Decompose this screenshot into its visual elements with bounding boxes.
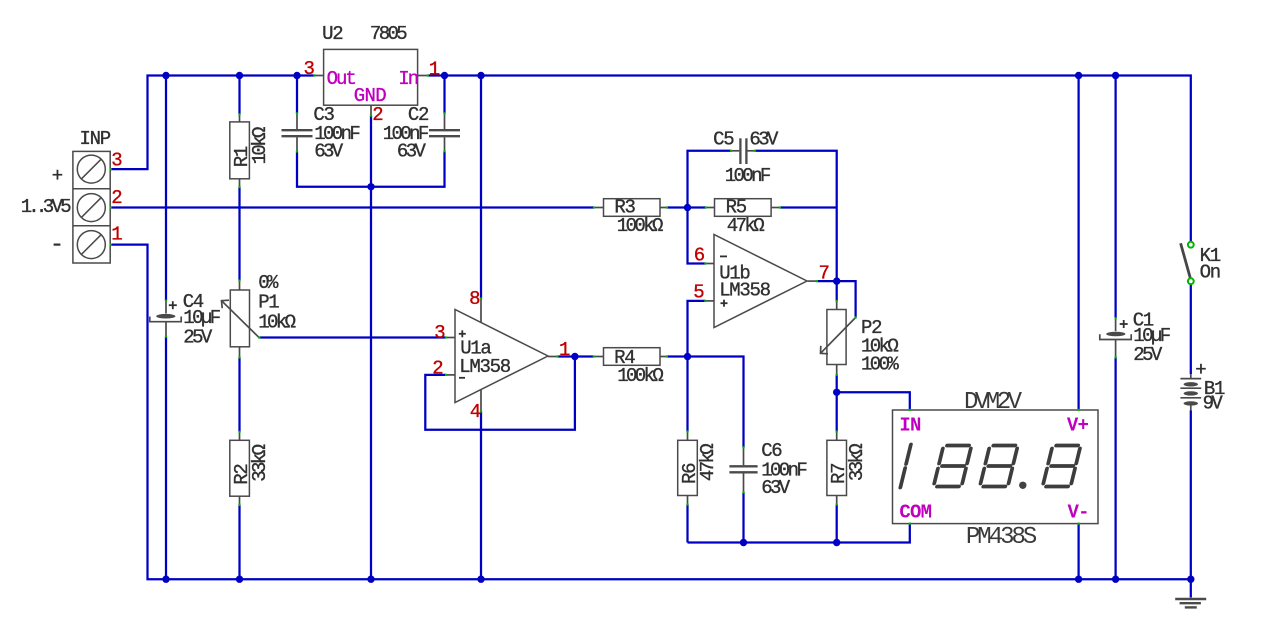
- svg-text:100%: 100%: [861, 354, 899, 376]
- svg-text:DVM2V: DVM2V: [964, 389, 1023, 416]
- svg-text:+: +: [52, 165, 63, 187]
- svg-text:V-: V-: [1068, 501, 1089, 523]
- svg-text:3: 3: [111, 149, 122, 171]
- svg-text:PM438S: PM438S: [966, 524, 1037, 551]
- svg-text:LM358: LM358: [459, 356, 510, 378]
- svg-text:In: In: [398, 68, 417, 90]
- svg-text:COM: COM: [899, 501, 931, 523]
- svg-text:7: 7: [819, 263, 830, 285]
- svg-text:33kΩ: 33kΩ: [249, 444, 271, 481]
- svg-text:2: 2: [432, 358, 443, 380]
- svg-text:63V: 63V: [761, 477, 791, 499]
- svg-text:3: 3: [304, 58, 315, 80]
- svg-text:10kΩ: 10kΩ: [249, 127, 271, 164]
- svg-text:1: 1: [559, 339, 570, 361]
- svg-text:U2: U2: [322, 23, 343, 45]
- svg-text:100kΩ: 100kΩ: [617, 215, 663, 237]
- svg-text:63V: 63V: [397, 140, 427, 162]
- svg-text:LM358: LM358: [719, 280, 770, 302]
- svg-text:63V: 63V: [314, 140, 344, 162]
- svg-text:4: 4: [470, 401, 481, 423]
- svg-text:33kΩ: 33kΩ: [846, 444, 868, 481]
- svg-text:V+: V+: [1067, 415, 1089, 437]
- svg-text:INP: INP: [80, 128, 111, 150]
- svg-text:5: 5: [693, 282, 704, 304]
- svg-text:1: 1: [429, 59, 440, 81]
- svg-text:P1: P1: [258, 292, 279, 314]
- svg-text:1: 1: [111, 224, 122, 246]
- svg-text:8: 8: [469, 288, 480, 310]
- svg-text:IN: IN: [899, 415, 921, 437]
- svg-text:63V: 63V: [749, 129, 779, 151]
- svg-text:47kΩ: 47kΩ: [697, 444, 719, 481]
- svg-text:47kΩ: 47kΩ: [727, 215, 764, 237]
- svg-text:25V: 25V: [183, 326, 213, 348]
- svg-text:10kΩ: 10kΩ: [258, 312, 295, 334]
- svg-text:1..: 1..: [21, 196, 44, 218]
- svg-text:3: 3: [434, 322, 445, 344]
- svg-text:C5: C5: [713, 129, 734, 151]
- svg-text:2: 2: [111, 187, 122, 209]
- svg-text:3V5: 3V5: [43, 196, 71, 218]
- svg-text:100kΩ: 100kΩ: [617, 365, 663, 387]
- svg-text:7805: 7805: [370, 23, 407, 45]
- svg-text:On: On: [1200, 262, 1220, 284]
- svg-text:25V: 25V: [1133, 344, 1163, 366]
- svg-text:6: 6: [694, 245, 705, 267]
- svg-text:100nF: 100nF: [725, 165, 771, 187]
- svg-text:Out: Out: [327, 68, 356, 90]
